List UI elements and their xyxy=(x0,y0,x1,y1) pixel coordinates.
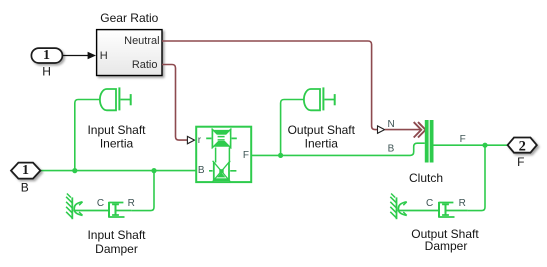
output damper icon xyxy=(398,202,468,218)
clutch plates xyxy=(425,120,434,163)
wire N arrow to clutch xyxy=(385,129,421,131)
svg-text:F: F xyxy=(517,155,524,169)
wire input damper branch xyxy=(131,171,154,211)
clutch actuation chevrons xyxy=(414,122,426,137)
svg-text:1: 1 xyxy=(43,48,50,63)
svg-text:F: F xyxy=(243,150,249,161)
svg-text:R: R xyxy=(459,198,466,209)
output shaft inertia icon xyxy=(304,87,335,110)
output damper ground reference xyxy=(390,194,406,220)
wire CVT F to clutch B xyxy=(251,143,425,155)
input damper icon xyxy=(73,202,131,218)
belt xyxy=(216,148,230,163)
CVT variable ratio transmission block xyxy=(196,127,251,182)
outport port 2 F (hexagon) xyxy=(508,138,537,169)
physical signal arrow at CVT r pin xyxy=(187,136,194,143)
rotation arc xyxy=(398,202,406,216)
signal wire Neutral (Gear Ratio to clutch N) xyxy=(162,41,377,130)
svg-text:Input Shaft: Input Shaft xyxy=(87,228,146,242)
svg-text:C: C xyxy=(97,198,104,209)
svg-text:R: R xyxy=(128,198,135,209)
signal wire Ratio (Gear Ratio to CVT r) xyxy=(162,65,187,141)
svg-text:Clutch: Clutch xyxy=(409,171,443,185)
input shaft inertia icon xyxy=(100,87,131,110)
svg-text:Input Shaft: Input Shaft xyxy=(87,123,146,137)
svg-text:Neutral: Neutral xyxy=(124,35,159,47)
svg-text:B: B xyxy=(21,180,29,194)
svg-text:H: H xyxy=(42,64,51,78)
svg-text:H: H xyxy=(100,50,108,62)
svg-text:Damper: Damper xyxy=(95,242,138,256)
wire input inertia branch xyxy=(75,100,100,171)
svg-text:B: B xyxy=(198,165,205,176)
svg-text:C: C xyxy=(426,198,433,209)
physical signal arrow at clutch N pin xyxy=(378,126,385,133)
wire output inertia branch xyxy=(281,100,304,156)
svg-text:Gear Ratio: Gear Ratio xyxy=(100,11,158,25)
input damper ground reference xyxy=(66,194,82,220)
bottom pulley xyxy=(209,161,236,182)
svg-text:Damper: Damper xyxy=(425,239,468,253)
svg-text:Ratio: Ratio xyxy=(132,59,158,71)
inport port 1 H xyxy=(31,48,96,78)
junction xyxy=(482,143,487,148)
subsystem Gear Ratio xyxy=(97,11,162,76)
wire output damper branch xyxy=(468,145,485,210)
svg-text:F: F xyxy=(460,134,466,145)
svg-text:B: B xyxy=(388,144,395,155)
svg-text:Output Shaft: Output Shaft xyxy=(288,123,356,137)
wire B line (port B to CVT B) xyxy=(40,170,196,172)
svg-text:Inertia: Inertia xyxy=(305,137,339,151)
junction xyxy=(278,153,283,158)
junction xyxy=(151,168,156,173)
svg-text:N: N xyxy=(388,119,395,130)
svg-text:1: 1 xyxy=(22,163,29,178)
rotation arc xyxy=(74,202,82,216)
svg-text:2: 2 xyxy=(519,138,526,154)
junction xyxy=(72,168,77,173)
wire clutch F to port 2 xyxy=(433,144,507,146)
top pulley xyxy=(206,129,237,149)
svg-text:Inertia: Inertia xyxy=(100,137,134,151)
inport port 1 B (hexagon) xyxy=(11,163,40,195)
